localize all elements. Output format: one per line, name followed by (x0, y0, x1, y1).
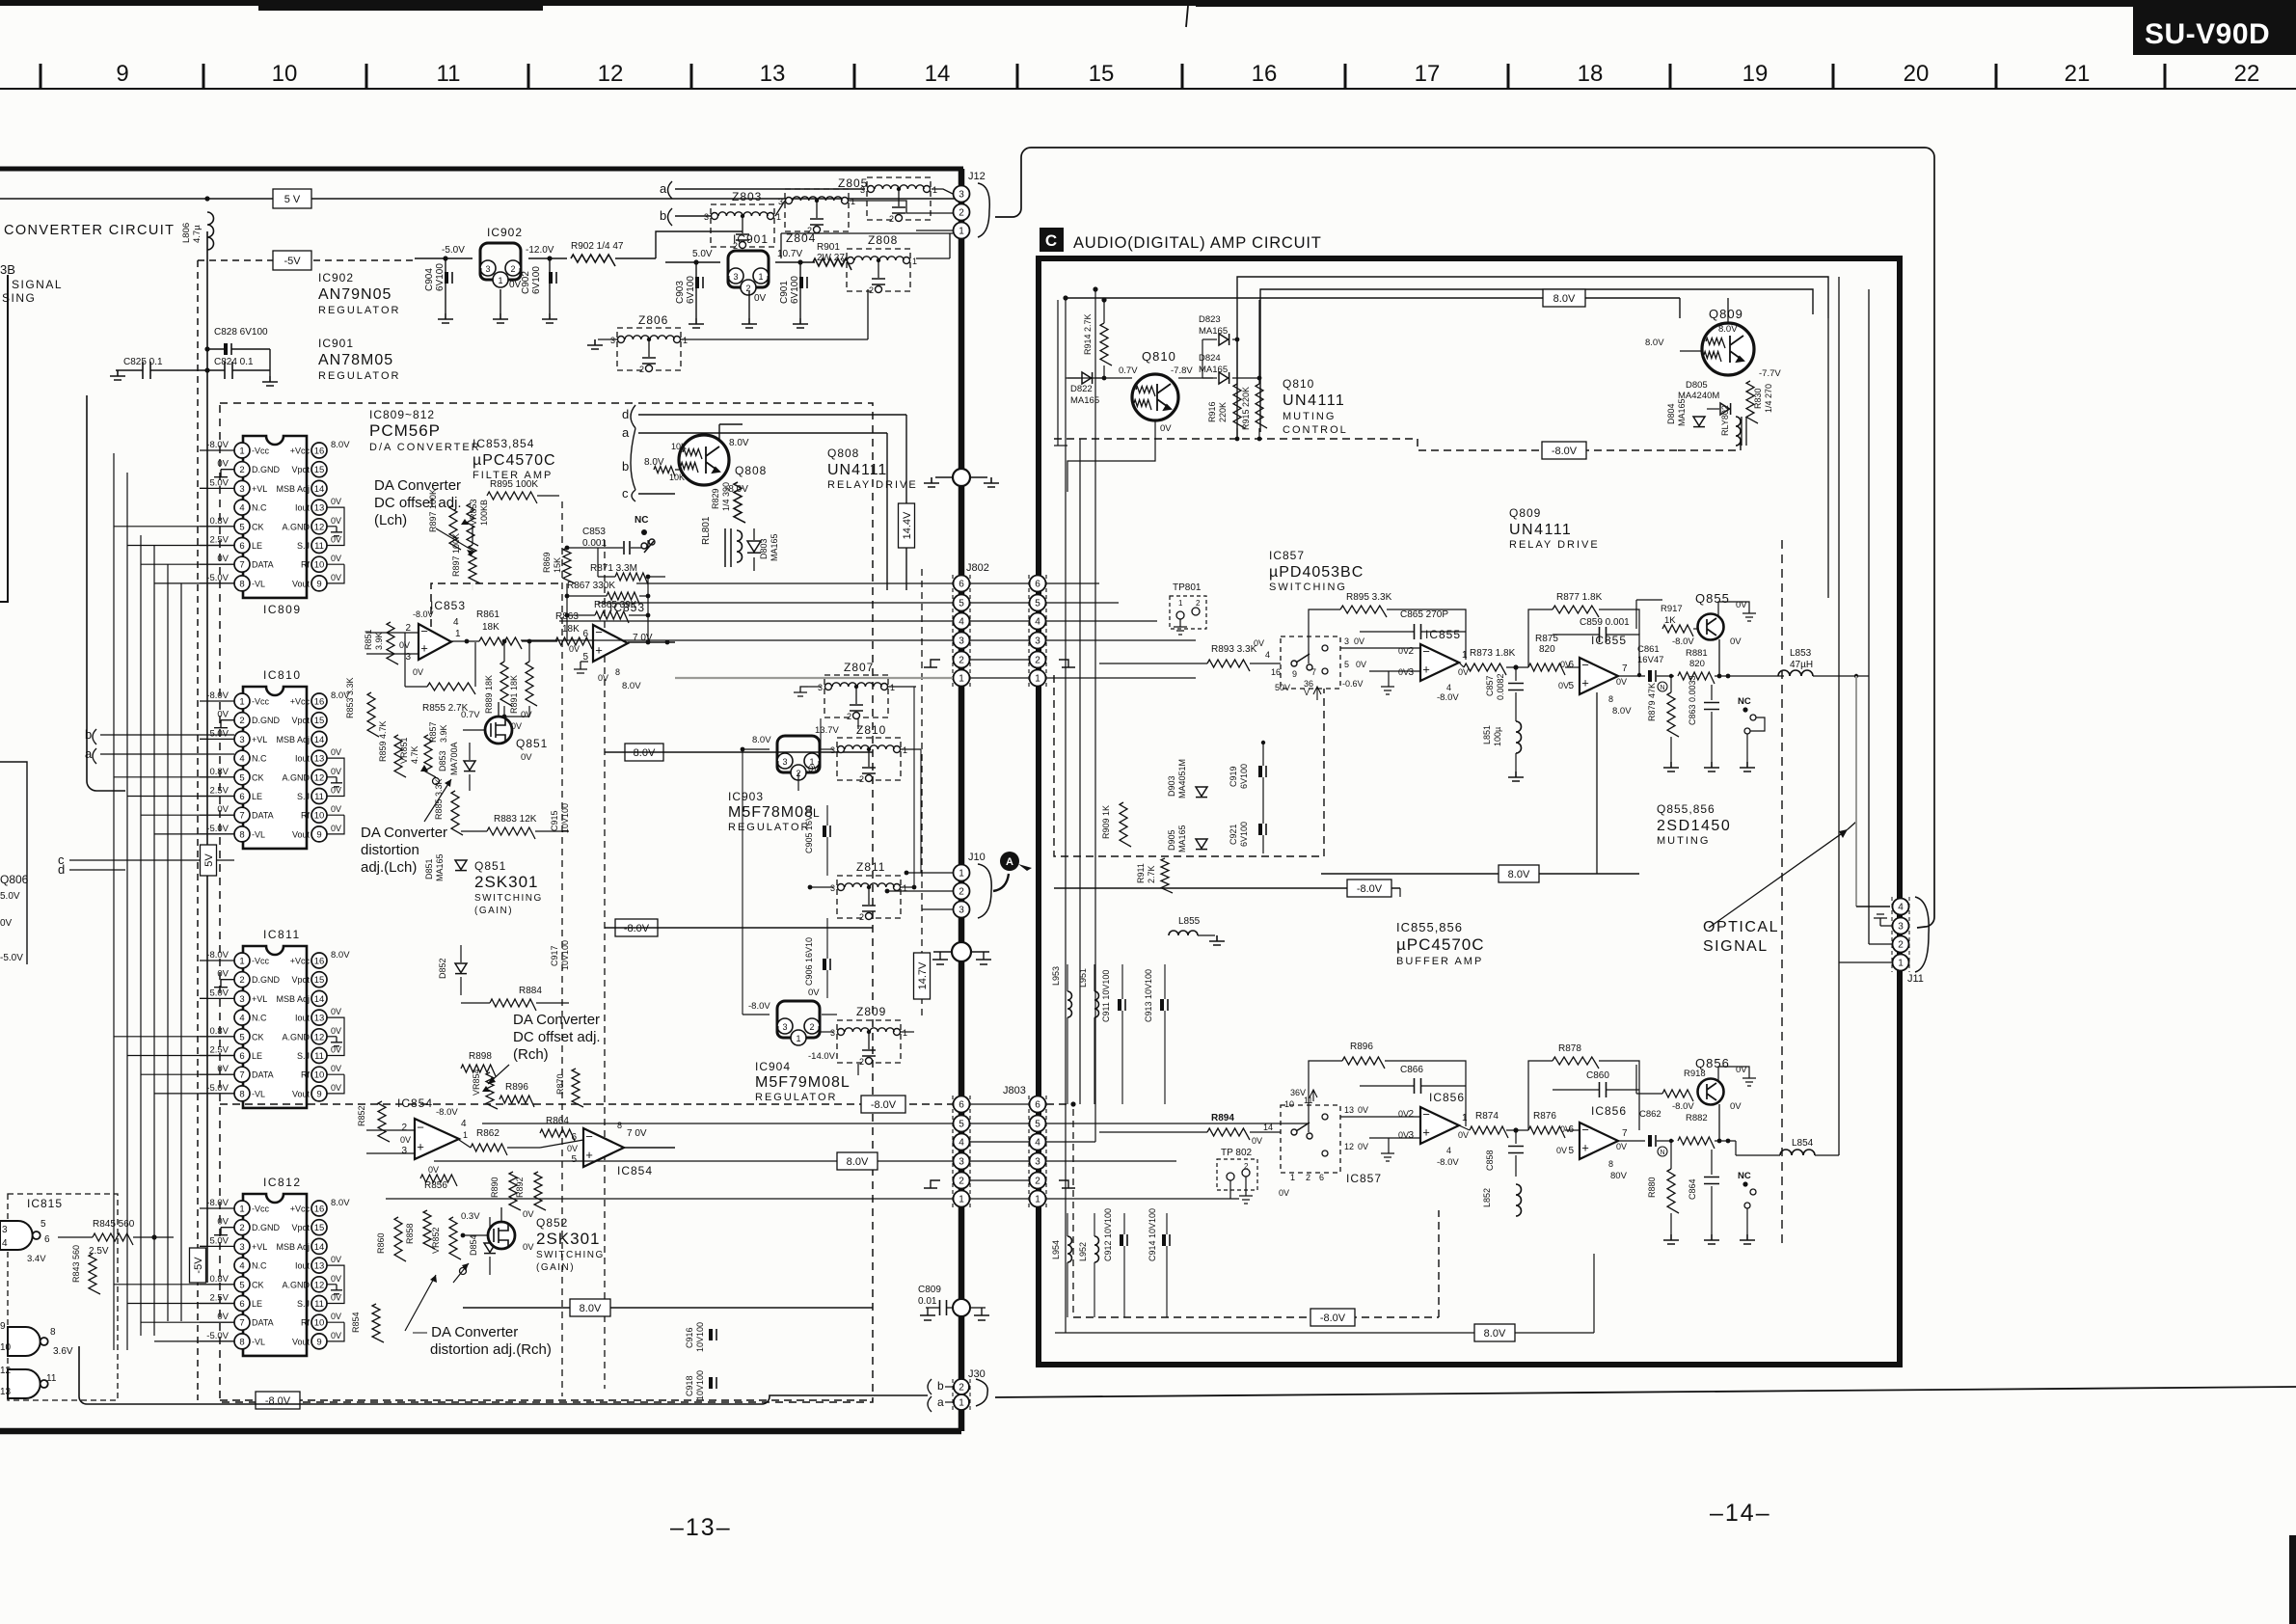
svg-text:16: 16 (314, 447, 325, 457)
svg-text:2: 2 (1196, 599, 1201, 608)
svg-text:1K: 1K (1664, 615, 1676, 626)
svg-text:R911: R911 (1136, 863, 1146, 883)
svg-text:SWITCHING: SWITCHING (1269, 582, 1347, 593)
svg-text:-5V: -5V (284, 256, 301, 267)
svg-text:-VL: -VL (252, 579, 265, 588)
svg-text:BUFFER AMP: BUFFER AMP (1396, 956, 1483, 967)
svg-text:4: 4 (453, 617, 459, 628)
svg-text:IC856: IC856 (1591, 1104, 1627, 1118)
svg-text:−: − (1422, 644, 1430, 659)
svg-text:0V: 0V (331, 497, 341, 506)
svg-text:7: 7 (239, 560, 244, 571)
svg-text:1: 1 (1462, 1113, 1468, 1123)
svg-text:14: 14 (314, 1242, 325, 1253)
svg-text:-8.0V: -8.0V (265, 1395, 291, 1407)
svg-text:4: 4 (1446, 683, 1451, 692)
svg-text:8.0V: 8.0V (331, 950, 350, 961)
svg-text:3: 3 (782, 1022, 787, 1032)
svg-text:D824: D824 (1199, 353, 1221, 364)
svg-text:M5F79M08L: M5F79M08L (755, 1074, 851, 1091)
svg-text:8.0V: 8.0V (1553, 293, 1576, 305)
svg-text:MA165: MA165 (435, 853, 445, 881)
svg-text:4: 4 (959, 1138, 964, 1149)
svg-text:C902: C902 (521, 271, 531, 294)
svg-text:19: 19 (1742, 61, 1769, 87)
svg-text:+: + (585, 1148, 593, 1162)
svg-text:0V: 0V (217, 1217, 229, 1228)
svg-text:1: 1 (1290, 1173, 1295, 1182)
svg-text:100KB: 100KB (479, 500, 489, 526)
svg-text:3.9K: 3.9K (374, 632, 384, 650)
svg-text:L855: L855 (1178, 916, 1201, 927)
svg-text:−: − (595, 625, 603, 639)
svg-text:UN4111: UN4111 (827, 462, 887, 478)
svg-text:0V: 0V (331, 1026, 341, 1036)
J803 housing dashed (952, 1096, 954, 1207)
svg-text:2SK301: 2SK301 (536, 1230, 601, 1248)
svg-text:2.5V: 2.5V (89, 1246, 109, 1257)
svg-text:C857: C857 (1485, 675, 1495, 696)
node verticals filter cluster (566, 583, 568, 641)
svg-text:0.001: 0.001 (582, 538, 607, 549)
filter Z811 (837, 876, 901, 918)
wires opamp IC853 chain (366, 632, 419, 634)
svg-text:Rf: Rf (301, 1318, 310, 1328)
svg-text:0V: 0V (331, 747, 341, 757)
svg-text:0V: 0V (509, 280, 522, 290)
svg-text:IC811: IC811 (263, 928, 301, 941)
svg-text:IC857: IC857 (1346, 1172, 1382, 1185)
svg-text:2: 2 (239, 1223, 244, 1233)
svg-text:2.5V: 2.5V (209, 1045, 229, 1056)
J803 pin row 6 (970, 1103, 1030, 1105)
svg-text:0V: 0V (331, 1255, 341, 1264)
svg-text:MA700A: MA700A (449, 742, 459, 775)
svg-text:17: 17 (1415, 61, 1441, 87)
filter Z810 (837, 738, 901, 780)
svg-text:N.C: N.C (252, 754, 267, 764)
svg-text:c: c (622, 486, 629, 501)
svg-text:8: 8 (239, 579, 244, 589)
grid ruler ticks (40, 64, 42, 89)
svg-text:10: 10 (314, 1070, 325, 1081)
svg-text:D.GND: D.GND (252, 465, 281, 474)
svg-text:11: 11 (46, 1373, 57, 1384)
svg-text:R890: R890 (490, 1177, 500, 1198)
svg-text:5.0V: 5.0V (0, 891, 20, 902)
svg-text:11: 11 (314, 1299, 324, 1310)
svg-text:5.0V: 5.0V (692, 249, 713, 259)
svg-text:Z806: Z806 (638, 313, 668, 327)
svg-text:1: 1 (239, 697, 244, 708)
svg-text:IC809: IC809 (263, 603, 302, 616)
svg-text:3: 3 (704, 212, 709, 222)
svg-text:R877 1.8K: R877 1.8K (1556, 592, 1603, 603)
svg-text:2: 2 (959, 1383, 964, 1394)
svg-text:3: 3 (1898, 922, 1904, 933)
svg-text:0V: 0V (217, 804, 229, 815)
svg-text:1: 1 (758, 272, 763, 282)
svg-text:DA Converter: DA Converter (374, 477, 461, 494)
svg-text:N: N (1660, 1150, 1664, 1156)
svg-text:15: 15 (1089, 61, 1115, 87)
svg-text:5: 5 (1035, 1120, 1040, 1130)
svg-text:Z811: Z811 (856, 860, 885, 874)
svg-text:S.J: S.J (297, 1051, 310, 1061)
svg-text:C914 10V100: C914 10V100 (1148, 1208, 1157, 1261)
J10 feed wires (906, 872, 953, 874)
svg-text:1: 1 (1898, 959, 1904, 969)
svg-text:IC904: IC904 (755, 1060, 791, 1073)
svg-text:CK: CK (252, 1032, 264, 1042)
svg-text:DC offset adj.: DC offset adj. (374, 495, 462, 511)
audio bottom rails (1073, 1316, 1439, 1318)
svg-text:−: − (420, 624, 428, 638)
svg-text:2: 2 (859, 912, 864, 922)
svg-text:A.GND: A.GND (282, 522, 310, 531)
dashed box D/A converter section (220, 403, 873, 1402)
svg-text:Z810: Z810 (856, 723, 886, 737)
svg-text:11: 11 (314, 541, 324, 552)
J11 dashed housing (1891, 897, 1893, 972)
left vertical bus wires to DIPs (113, 453, 115, 1350)
svg-text:3: 3 (782, 757, 787, 767)
svg-text:8: 8 (239, 1337, 244, 1347)
svg-text:Q810: Q810 (1142, 349, 1176, 364)
svg-text:AUDIO(DIGITAL) AMP CIRCUIT: AUDIO(DIGITAL) AMP CIRCUIT (1073, 234, 1322, 252)
svg-text:2: 2 (809, 1022, 814, 1032)
svg-text:-5.0V: -5.0V (206, 824, 229, 834)
svg-text:0V: 0V (1730, 636, 1742, 647)
svg-text:0V: 0V (1358, 1105, 1368, 1115)
IC811 PCM56P DAC (243, 946, 307, 1108)
svg-text:D.GND: D.GND (252, 975, 281, 985)
svg-text:5.0V: 5.0V (209, 728, 229, 739)
svg-text:C906 16V10: C906 16V10 (804, 937, 814, 986)
connector J11 (1893, 899, 1909, 915)
svg-text:−: − (1581, 658, 1589, 672)
svg-text:2: 2 (745, 284, 750, 293)
svg-text:14: 14 (314, 994, 325, 1005)
svg-text:D905: D905 (1167, 829, 1176, 851)
svg-text:-8.0V: -8.0V (748, 1001, 770, 1012)
svg-text:0V: 0V (331, 1312, 341, 1321)
svg-text:15: 15 (314, 716, 325, 726)
svg-text:R863: R863 (555, 611, 579, 622)
svg-text:6: 6 (959, 580, 964, 590)
svg-text:0V: 0V (331, 554, 341, 563)
svg-text:10V100: 10V100 (695, 1322, 705, 1352)
svg-text:+Vcc: +Vcc (290, 447, 311, 456)
svg-text:5: 5 (1035, 599, 1040, 609)
svg-text:8: 8 (50, 1327, 56, 1338)
svg-text:R881: R881 (1686, 648, 1708, 659)
svg-text:UN4111: UN4111 (1509, 522, 1572, 538)
IC810 PCM56P DAC (243, 687, 307, 849)
svg-text:LE: LE (252, 1051, 262, 1061)
svg-text:8: 8 (615, 667, 620, 677)
svg-text:1/4 270: 1/4 270 (1764, 384, 1773, 413)
svg-text:2: 2 (1898, 940, 1904, 951)
svg-text:14.4V: 14.4V (902, 511, 913, 539)
svg-text:A: A (1006, 856, 1013, 868)
svg-text:Q806: Q806 (0, 873, 29, 886)
audio interior rail B (1260, 289, 1813, 432)
svg-text:5 V: 5 V (284, 194, 301, 205)
svg-text:+VL: +VL (252, 735, 267, 744)
svg-text:13: 13 (314, 754, 325, 765)
svg-text:C913 10V100: C913 10V100 (1144, 969, 1153, 1022)
svg-text:6: 6 (582, 629, 588, 639)
svg-text:J803: J803 (1003, 1085, 1026, 1096)
svg-text:0V: 0V (413, 667, 423, 677)
svg-text:2: 2 (847, 712, 851, 721)
svg-text:IC815: IC815 (27, 1197, 63, 1210)
svg-text:10K: 10K (671, 442, 687, 451)
svg-text:R870: R870 (555, 1073, 565, 1095)
svg-text:3: 3 (1408, 667, 1414, 678)
J803 pin row 4 (970, 1141, 1030, 1143)
svg-text:1: 1 (959, 674, 964, 685)
svg-text:13: 13 (0, 1387, 12, 1397)
svg-text:IC853: IC853 (430, 599, 466, 612)
svg-text:0.7V: 0.7V (461, 710, 480, 720)
svg-text:-14.0V: -14.0V (808, 1051, 836, 1062)
svg-text:−: − (1581, 1123, 1589, 1137)
svg-text:D803: D803 (759, 538, 769, 559)
svg-text:IC903: IC903 (728, 790, 764, 803)
svg-text:R856: R856 (424, 1180, 447, 1191)
svg-text:15K: 15K (553, 557, 562, 573)
svg-text:Z808: Z808 (868, 233, 898, 247)
audio interior rail A (1237, 277, 1828, 439)
svg-text:1: 1 (498, 276, 502, 285)
svg-text:Q851: Q851 (516, 737, 548, 750)
svg-text:8.0V: 8.0V (1645, 338, 1664, 348)
svg-text:2SD1450: 2SD1450 (1657, 818, 1731, 834)
svg-text:14: 14 (314, 484, 325, 495)
svg-text:5: 5 (1568, 1146, 1574, 1156)
svg-text:CONVERTER CIRCUIT: CONVERTER CIRCUIT (4, 223, 175, 238)
svg-text:4: 4 (1035, 617, 1040, 628)
svg-text:6: 6 (1035, 1100, 1040, 1111)
svg-text:R897 100K: R897 100K (451, 533, 461, 577)
svg-text:0V: 0V (523, 1242, 534, 1253)
transistor Q852 2SK301 (488, 1222, 515, 1249)
svg-text:10V100: 10V100 (560, 940, 570, 970)
svg-text:(GAIN): (GAIN) (536, 1262, 575, 1273)
svg-text:R909 1K: R909 1K (1101, 805, 1111, 839)
svg-text:4: 4 (1898, 903, 1904, 913)
svg-text:2: 2 (859, 1057, 864, 1067)
svg-text:1: 1 (903, 883, 907, 893)
svg-text:IC855: IC855 (1591, 634, 1627, 647)
svg-text:Iout: Iout (295, 1261, 311, 1271)
svg-text:0V: 0V (521, 710, 532, 720)
svg-text:1: 1 (1035, 674, 1040, 685)
svg-text:1: 1 (903, 1028, 907, 1038)
svg-text:0V: 0V (331, 573, 341, 582)
filter Z803 (711, 204, 774, 247)
svg-text:4.7K: 4.7K (410, 745, 419, 764)
filter Z807 (824, 675, 888, 717)
svg-text:5V: 5V (203, 853, 215, 867)
svg-text:8.0V: 8.0V (752, 735, 771, 745)
svg-text:0V: 0V (1160, 423, 1172, 434)
svg-text:Z807: Z807 (844, 661, 874, 674)
svg-text:-8.0V: -8.0V (1552, 446, 1578, 457)
svg-text:-VL: -VL (252, 1089, 265, 1098)
svg-text:L951: L951 (1078, 968, 1088, 988)
svg-text:21: 21 (2065, 61, 2091, 87)
svg-text:3: 3 (1408, 1130, 1414, 1141)
svg-text:C865 270P: C865 270P (1400, 609, 1448, 620)
svg-text:D.GND: D.GND (252, 716, 281, 725)
svg-text:0V: 0V (598, 673, 608, 683)
svg-text:C903: C903 (675, 281, 686, 304)
svg-text:R917: R917 (1661, 604, 1683, 614)
svg-text:Q855,856: Q855,856 (1657, 802, 1715, 816)
svg-text:3: 3 (830, 745, 835, 755)
svg-text:9: 9 (316, 1089, 321, 1099)
svg-text:4: 4 (959, 617, 964, 628)
svg-text:CONTROL: CONTROL (1283, 424, 1348, 436)
svg-text:3: 3 (2, 1225, 8, 1235)
svg-text:Q852: Q852 (536, 1216, 568, 1230)
svg-text:R879 47K: R879 47K (1647, 683, 1657, 721)
svg-text:4: 4 (239, 754, 244, 765)
svg-text:11: 11 (314, 792, 324, 802)
svg-text:Vpot: Vpot (291, 716, 310, 725)
svg-text:2.5V: 2.5V (209, 1293, 229, 1304)
svg-text:R830: R830 (1753, 388, 1763, 409)
svg-text:D903: D903 (1167, 775, 1176, 797)
svg-text:12: 12 (0, 1366, 12, 1376)
5V solid bus vertical (206, 231, 208, 1283)
svg-text:6V100: 6V100 (686, 276, 696, 304)
svg-text:3: 3 (733, 272, 738, 282)
svg-text:D805: D805 (1686, 380, 1708, 391)
svg-text:2: 2 (959, 1177, 964, 1187)
IC812 PCM56P DAC (243, 1194, 307, 1356)
svg-text:C858: C858 (1485, 1150, 1495, 1171)
svg-text:12: 12 (1344, 1142, 1354, 1151)
svg-text:16: 16 (314, 957, 325, 967)
svg-text:18K: 18K (482, 622, 500, 633)
svg-text:13: 13 (760, 61, 786, 87)
wires Z805 Z804 to J12 (916, 230, 953, 231)
svg-text:(GAIN): (GAIN) (474, 906, 513, 916)
svg-text:9: 9 (316, 579, 321, 589)
svg-text:Z803: Z803 (732, 190, 762, 203)
svg-text:2: 2 (859, 774, 864, 784)
svg-text:6V100: 6V100 (531, 266, 542, 294)
svg-text:–13–: –13– (670, 1514, 732, 1541)
svg-text:Iout: Iout (295, 754, 311, 764)
svg-text:R889 18K: R889 18K (484, 675, 494, 714)
svg-text:-8.0V: -8.0V (1672, 1101, 1694, 1112)
svg-text:C919: C919 (1229, 766, 1238, 787)
svg-text:C866: C866 (1400, 1065, 1423, 1075)
svg-text:0V: 0V (523, 1209, 534, 1220)
svg-text:1: 1 (1462, 650, 1468, 661)
svg-text:10V100: 10V100 (560, 803, 570, 833)
svg-text:-8.0V: -8.0V (206, 690, 229, 701)
svg-text:2: 2 (239, 465, 244, 475)
svg-text:R852: R852 (357, 1105, 366, 1126)
svg-text:D804: D804 (1666, 403, 1676, 424)
svg-text:2: 2 (1408, 646, 1414, 657)
svg-text:2: 2 (733, 241, 738, 251)
svg-text:0V: 0V (1358, 1142, 1368, 1151)
svg-text:0V: 0V (1458, 1130, 1469, 1140)
svg-text:d: d (58, 862, 65, 877)
svg-text:TP801: TP801 (1173, 582, 1202, 593)
svg-text:Q851: Q851 (474, 859, 506, 873)
svg-text:DA Converter: DA Converter (513, 1012, 600, 1028)
svg-text:10: 10 (0, 1342, 12, 1353)
svg-text:6: 6 (239, 1299, 244, 1310)
svg-text:7: 7 (1622, 1128, 1628, 1139)
svg-text:12: 12 (598, 61, 624, 87)
middle column verticals (820, 718, 822, 749)
svg-text:1: 1 (959, 227, 964, 237)
svg-text:−: − (417, 1120, 424, 1134)
svg-text:-8.0V: -8.0V (1437, 692, 1459, 703)
svg-text:3: 3 (959, 1157, 964, 1168)
svg-text:a: a (937, 1395, 944, 1409)
nand gate IC815 c (8, 1369, 41, 1398)
svg-text:4: 4 (239, 503, 244, 514)
svg-text:0V: 0V (331, 824, 341, 833)
right inner verticals (1838, 277, 1840, 1155)
svg-text:6: 6 (1319, 1173, 1324, 1182)
svg-text:0V: 0V (217, 710, 229, 720)
svg-text:IC902: IC902 (318, 271, 354, 284)
svg-text:-7.8V: -7.8V (1171, 365, 1193, 376)
svg-text:0V: 0V (217, 459, 229, 470)
svg-text:RL801: RL801 (701, 516, 712, 545)
svg-text:0V: 0V (511, 721, 522, 731)
audio block border (1039, 258, 1900, 1365)
node A flag (1000, 852, 1019, 871)
svg-text:DC offset adj.: DC offset adj. (513, 1029, 601, 1045)
switch block IC857 lower (1281, 1105, 1340, 1173)
svg-text:0V: 0V (1356, 660, 1366, 669)
svg-text:R914 2.7K: R914 2.7K (1083, 313, 1093, 355)
svg-text:R895 3.3K: R895 3.3K (1346, 592, 1392, 603)
svg-text:16: 16 (314, 1204, 325, 1215)
svg-text:MA165: MA165 (1177, 825, 1187, 853)
boxed -8.0V mid (615, 919, 658, 936)
svg-text:Vout: Vout (292, 1337, 311, 1346)
svg-text:Iout: Iout (295, 503, 311, 513)
svg-text:a: a (622, 425, 630, 440)
svg-text:4: 4 (2, 1238, 8, 1249)
svg-text:14.7V: 14.7V (917, 961, 929, 989)
svg-text:10V100: 10V100 (695, 1370, 705, 1400)
svg-text:J802: J802 (966, 562, 989, 574)
svg-text:R892: R892 (515, 1177, 525, 1198)
J803 pin row 2 (970, 1179, 1030, 1181)
svg-text:50V: 50V (1275, 683, 1290, 692)
svg-text:Q808: Q808 (827, 447, 859, 460)
dashed boundary muting section (1781, 540, 1783, 1244)
svg-text:10: 10 (272, 61, 298, 87)
svg-text:8.0V: 8.0V (644, 457, 664, 468)
svg-text:8: 8 (1608, 694, 1613, 704)
svg-text:(Lch): (Lch) (374, 512, 407, 528)
